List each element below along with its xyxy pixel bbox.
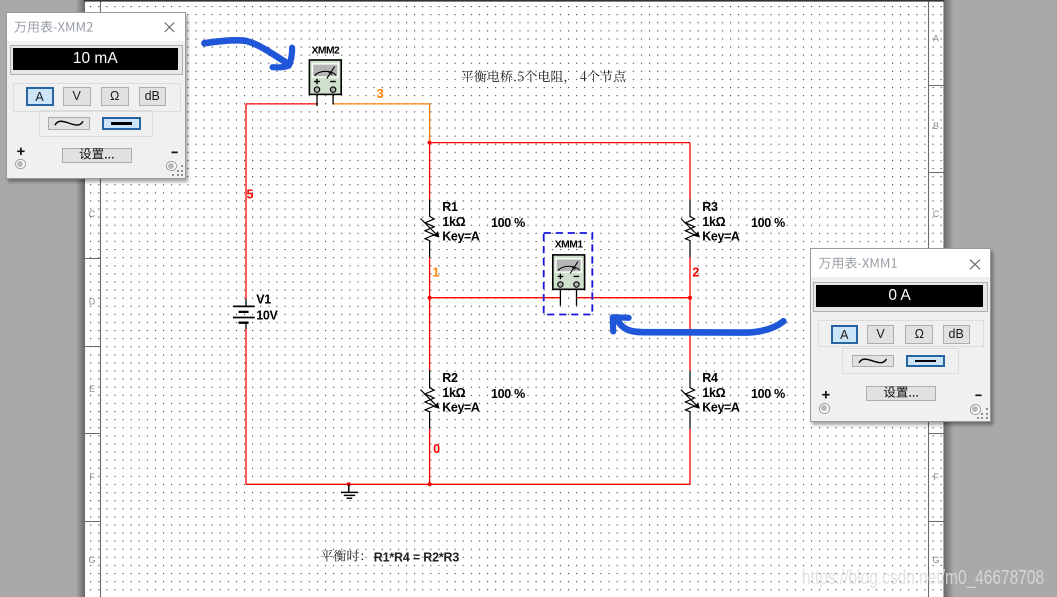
node 2 junction: [688, 296, 692, 300]
svg-text:Key=A: Key=A: [442, 229, 480, 243]
blue hand-drawn arrow top-left: [204, 40, 287, 63]
svg-text:5: 5: [247, 188, 254, 202]
svg-text:100 %: 100 %: [491, 387, 525, 401]
sheet side shadows: [76, 0, 84, 597]
resistor R2 (potentiometer): [425, 370, 434, 428]
annotation: top chinese text: [461, 70, 625, 84]
wire: left rail top (node 5): [246, 103, 317, 105]
svg-text:10V: 10V: [256, 309, 278, 323]
wire: R4 branch leads: [689, 298, 691, 485]
battery V1: [245, 299, 247, 329]
svg-text:3: 3: [377, 87, 384, 101]
wire: bottom rail (node 0): [246, 483, 690, 485]
wire: battery to bottom rail: [245, 329, 247, 484]
svg-text:Key=A: Key=A: [702, 400, 740, 414]
svg-text:V1: V1: [256, 293, 271, 307]
svg-text:R4: R4: [702, 371, 718, 385]
ammeter XMM2 component: [309, 60, 341, 94]
wire: middle rail node 1 to XMM1 plus: [430, 297, 561, 299]
wire: left rail vertical to battery: [245, 104, 247, 299]
svg-text:1kΩ: 1kΩ: [442, 386, 465, 400]
wire: middle rail XMM1 minus to node 2: [576, 297, 690, 299]
XMM1 selection dashed box: [544, 233, 593, 315]
svg-text:1kΩ: 1kΩ: [442, 215, 465, 229]
svg-text:R2: R2: [442, 371, 458, 385]
multimeter dialog XMM2: [6, 12, 186, 179]
svg-text:XMM2: XMM2: [312, 45, 341, 56]
svg-text:R1: R1: [442, 200, 458, 214]
svg-text:XMM1: XMM1: [555, 239, 584, 250]
ground junction: [347, 482, 351, 486]
svg-text:Key=A: Key=A: [702, 229, 740, 243]
multimeter dialog XMM1: [810, 248, 991, 422]
wire: orange node 3 from XMM2 minus to bridge top: [333, 104, 430, 143]
svg-text:R1*R4 = R2*R3: R1*R4 = R2*R3: [374, 550, 460, 564]
ground: [341, 484, 358, 498]
wire: R2 branch leads: [429, 298, 431, 485]
csdn watermark: [802, 567, 1044, 590]
svg-text:1kΩ: 1kΩ: [702, 215, 725, 229]
svg-text:0: 0: [433, 442, 440, 456]
svg-text:100 %: 100 %: [751, 387, 785, 401]
node 0 junction at R2: [428, 482, 432, 486]
svg-text:1: 1: [433, 265, 440, 279]
node 3 junction at bridge top: [428, 141, 432, 145]
resistor R1 (potentiometer): [425, 199, 434, 257]
wire: R3 branch leads: [689, 143, 691, 298]
svg-text:Key=A: Key=A: [442, 400, 480, 414]
svg-text:R3: R3: [702, 200, 718, 214]
blue hand-drawn arrow right (points to XMM1): [617, 319, 784, 333]
resistor R3 (potentiometer): [685, 199, 694, 257]
svg-text:1kΩ: 1kΩ: [702, 386, 725, 400]
ammeter XMM1 component: [553, 255, 585, 289]
svg-text:100 %: 100 %: [491, 216, 525, 230]
svg-text:2: 2: [692, 266, 699, 280]
wire: bridge top rail: [430, 142, 690, 144]
XMM2 terminal stems: [317, 94, 333, 106]
resistor R4 (potentiometer): [685, 370, 694, 428]
annotation: bottom chinese text: [321, 550, 363, 562]
XMM1 terminal stems: [560, 289, 576, 305]
svg-text:100 %: 100 %: [751, 216, 785, 230]
node 1 junction: [428, 296, 432, 300]
wire: R1 branch leads: [429, 143, 431, 298]
